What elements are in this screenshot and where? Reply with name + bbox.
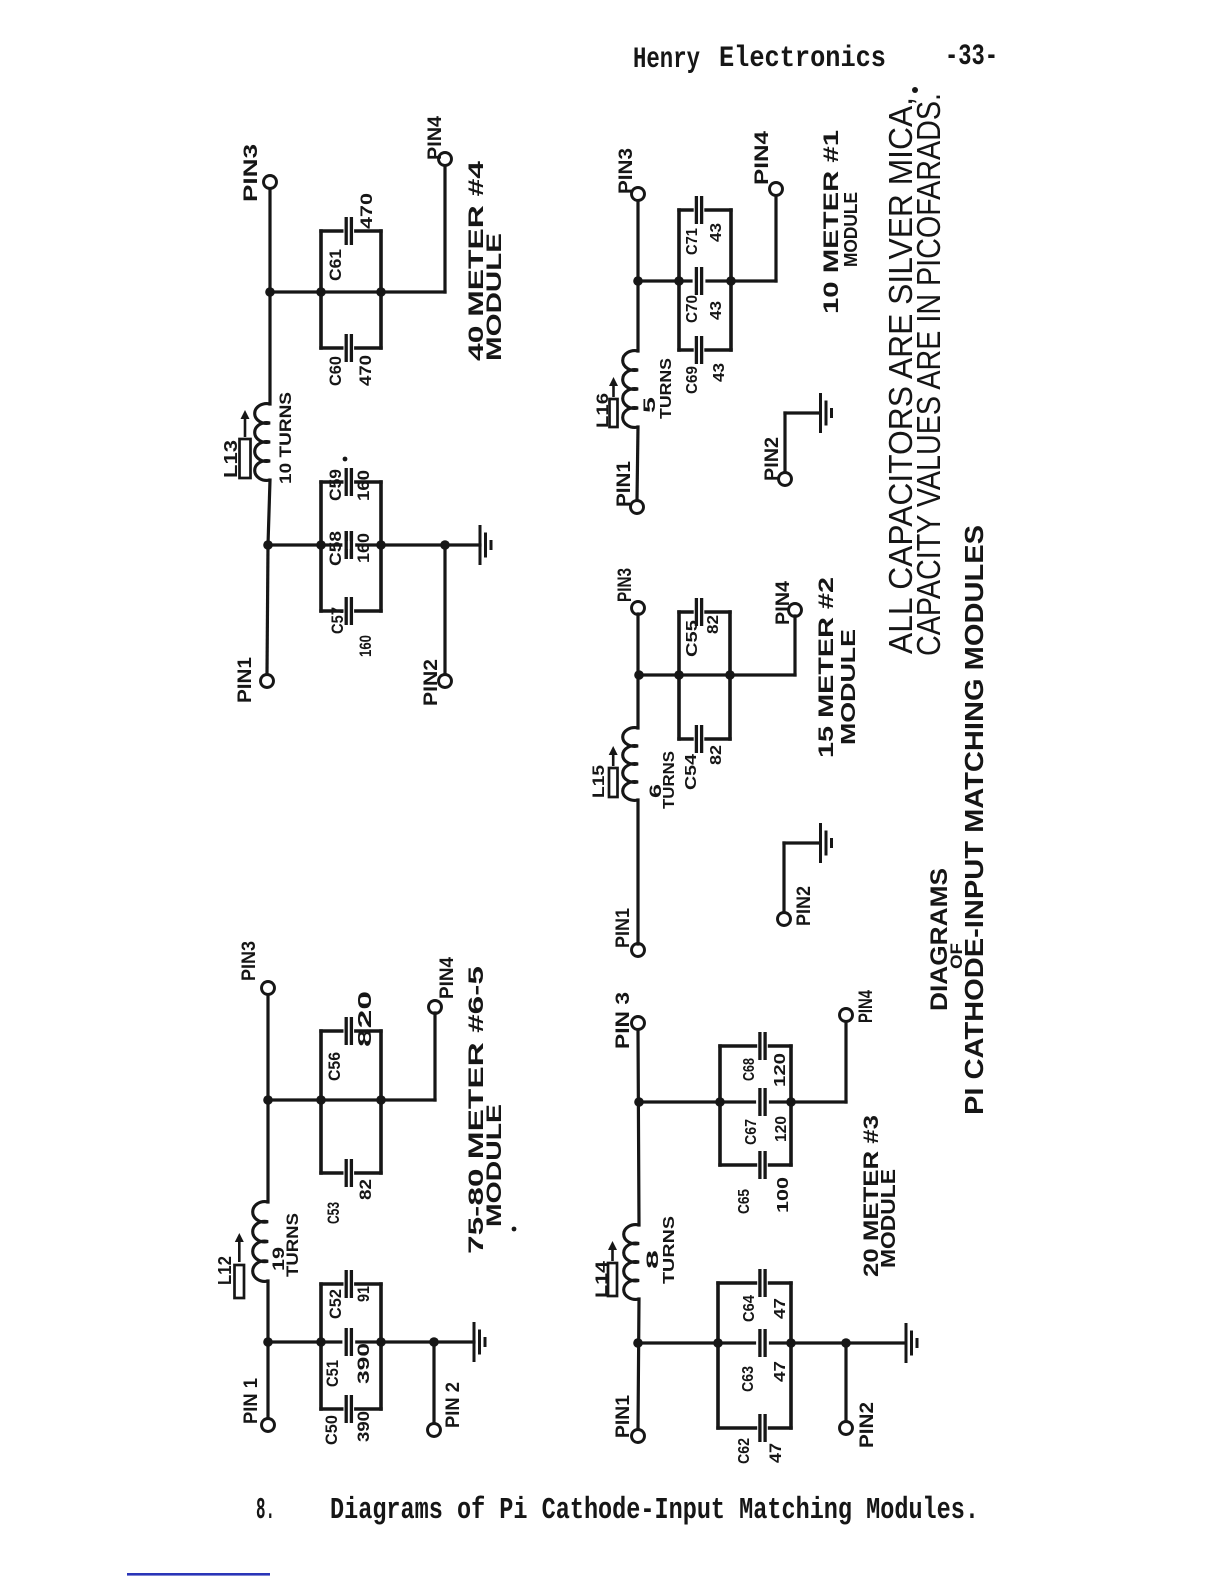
svg-text:PIN3: PIN3 [615,568,636,602]
svg-text:5: 5 [640,397,659,413]
svg-text:47: 47 [772,1361,789,1382]
svg-text:160: 160 [354,533,373,563]
svg-text:C55: C55 [684,620,701,657]
svg-text:470: 470 [357,193,376,229]
svg-text:C59: C59 [326,469,345,501]
svg-text:PIN3: PIN3 [239,941,260,981]
svg-text:Diagrams of Pi Cathode-Input M: Diagrams of Pi Cathode-Input Matching Mo… [330,1493,979,1528]
svg-text:82: 82 [705,615,722,634]
svg-text:C67: C67 [743,1119,760,1145]
svg-text:C63: C63 [740,1366,757,1392]
svg-text:PIN 3: PIN 3 [613,992,634,1049]
svg-text:PIN2: PIN2 [421,659,442,706]
svg-text:100: 100 [775,1177,792,1213]
svg-text:C69: C69 [684,366,701,394]
svg-text:MODULE: MODULE [841,192,861,267]
svg-text:TURNS: TURNS [658,358,675,419]
svg-text:91: 91 [354,1286,373,1302]
svg-text:TURNS: TURNS [283,1213,302,1277]
svg-text:43: 43 [708,223,725,242]
svg-text:MODULE: MODULE [483,1104,506,1227]
svg-text:C60: C60 [326,356,345,386]
svg-text:C56: C56 [325,1052,344,1081]
svg-text:L12: L12 [215,1256,235,1285]
svg-text:C54: C54 [683,754,700,790]
svg-text:L15: L15 [589,765,608,798]
svg-text:470: 470 [356,355,375,386]
svg-text:8: 8 [643,1250,662,1269]
svg-text:390: 390 [354,1411,373,1442]
svg-text:MODULE: MODULE [878,1169,900,1268]
svg-text:C50: C50 [322,1415,341,1445]
svg-text:PIN4: PIN4 [752,130,773,185]
svg-text:390: 390 [354,1343,373,1384]
svg-text:PIN 1: PIN 1 [241,1378,262,1424]
svg-text:10 METER #1: 10 METER #1 [820,130,843,314]
svg-text:10 TURNS: 10 TURNS [276,392,295,484]
svg-text:15 METER #2: 15 METER #2 [815,577,838,758]
svg-text:DIAGRAMS: DIAGRAMS [926,868,953,1011]
svg-text:MODULE: MODULE [483,233,506,361]
svg-text:C57: C57 [328,607,347,634]
svg-text:PIN2: PIN2 [762,437,783,481]
svg-text:PIN1: PIN1 [613,1395,634,1438]
svg-text:PIN 2: PIN 2 [443,1382,464,1428]
svg-text:8.: 8. [256,1493,275,1528]
svg-text:C58: C58 [326,531,345,566]
svg-text:160: 160 [356,635,375,657]
svg-text:C68: C68 [741,1058,758,1081]
svg-text:C61: C61 [326,249,345,281]
svg-text:82: 82 [356,1179,375,1200]
svg-text:PI CATHODE-INPUT MATCHING MODU: PI CATHODE-INPUT MATCHING MODULES [959,525,989,1115]
svg-text:C53: C53 [324,1202,343,1224]
svg-text:47: 47 [772,1298,789,1319]
svg-text:L16: L16 [593,393,612,428]
svg-text:PIN4: PIN4 [856,990,877,1023]
svg-text:PIN1: PIN1 [613,908,634,948]
svg-text:PIN4: PIN4 [437,957,458,999]
svg-text:-33-: -33- [945,40,998,74]
svg-text:820: 820 [355,991,375,1047]
svg-text:PIN1: PIN1 [235,657,256,703]
svg-text:CAPACITY VALUES ARE IN PICOFAR: CAPACITY VALUES ARE IN PICOFARADS. [910,93,947,656]
svg-text:160: 160 [354,470,373,501]
svg-text:120: 120 [772,1053,789,1087]
svg-text:C65: C65 [736,1189,753,1214]
svg-text:PIN2: PIN2 [794,886,815,926]
svg-text:L14: L14 [592,1260,611,1298]
svg-text:47: 47 [766,1443,785,1463]
svg-text:C70: C70 [684,295,701,323]
svg-text:C71: C71 [684,228,701,255]
svg-text:L13: L13 [221,440,241,478]
svg-text:PIN4: PIN4 [425,116,446,160]
svg-text:MODULE: MODULE [838,629,860,745]
svg-text:82: 82 [708,745,725,765]
svg-text:120: 120 [773,1116,790,1142]
svg-text:C62: C62 [736,1438,753,1464]
svg-text:C51: C51 [323,1360,342,1387]
svg-text:TURNS: TURNS [661,1216,678,1284]
svg-text:PIN1: PIN1 [614,461,635,507]
svg-text:C52: C52 [326,1289,345,1319]
svg-text:TURNS: TURNS [661,751,678,809]
svg-text:C64: C64 [741,1295,758,1322]
svg-text:Electronics: Electronics [719,42,886,76]
svg-text:PIN4: PIN4 [773,581,794,625]
svg-text:PIN3: PIN3 [241,144,262,202]
svg-text:PIN3: PIN3 [616,148,637,194]
svg-text:Henry: Henry [633,43,700,77]
svg-text:43: 43 [708,301,725,320]
svg-text:PIN2: PIN2 [857,1402,878,1448]
svg-text:43: 43 [711,363,728,382]
